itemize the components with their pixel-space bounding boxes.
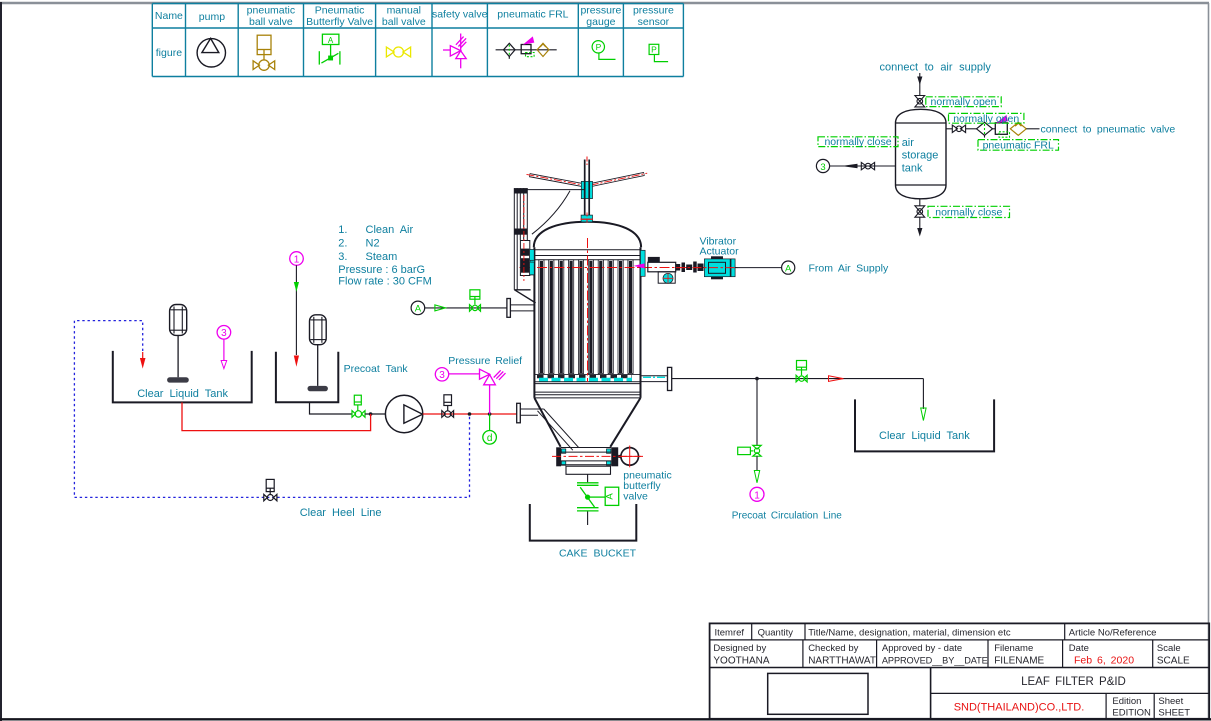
support brace diagonal bbox=[515, 290, 536, 303]
svg-text:Sheet: Sheet bbox=[1158, 696, 1183, 707]
flange: cone left nozzle bbox=[517, 403, 521, 423]
vibrator shaft right side bbox=[648, 257, 660, 262]
svg-text:storage: storage bbox=[902, 150, 939, 162]
pipe: vent down bbox=[919, 217, 921, 228]
svg-text:normally open: normally open bbox=[953, 113, 1019, 125]
svg-text:pneumatic FRL: pneumatic FRL bbox=[497, 9, 568, 21]
pipe: vibrator to air supply bbox=[676, 267, 737, 269]
svg-text:Edition: Edition bbox=[1112, 696, 1141, 707]
node: magenta circle 3 (relief) bbox=[435, 368, 448, 381]
vessel: bottom plate lines bbox=[535, 381, 640, 383]
vessel: cone bbox=[534, 398, 560, 447]
valve: air tank top manual valve bbox=[915, 96, 925, 107]
node: magenta circle 1 (precoat feed) bbox=[290, 252, 304, 266]
svg-text:Name: Name bbox=[155, 10, 183, 22]
tank: precoat tank bbox=[276, 352, 338, 403]
pipe: precoat circulation drop bbox=[756, 379, 758, 446]
flange: vessel air nozzle bbox=[507, 299, 511, 318]
node: magenta circle 3 (left tank) bbox=[217, 326, 231, 340]
page border left bbox=[0, 2, 2, 721]
pressure relief valve (magenta) bbox=[449, 369, 506, 414]
svg-text:ball valve: ball valve bbox=[249, 16, 293, 28]
pipe below butterfly valve bbox=[587, 512, 589, 526]
column bottom cap bbox=[514, 229, 527, 235]
svg-text:tank: tank bbox=[902, 162, 923, 174]
legend safety valve symbol bbox=[443, 34, 466, 69]
svg-text:2.: 2. bbox=[338, 237, 347, 249]
svg-text:Title/Name, designation, mater: Title/Name, designation, material, dimen… bbox=[808, 627, 1011, 638]
svg-text:Feb 6, 2020: Feb 6, 2020 bbox=[1074, 654, 1134, 666]
agitator 1 shaft bbox=[177, 335, 179, 377]
legend pressure sensor symbol bbox=[649, 44, 668, 61]
text: edition / sheet bbox=[1112, 696, 1190, 719]
svg-text:gauge: gauge bbox=[586, 16, 615, 28]
label box: normally open (top) bbox=[926, 97, 1001, 107]
svg-text:Checked by: Checked by bbox=[808, 643, 858, 654]
valve: air inlet pneumatic ball valve bbox=[470, 290, 481, 311]
discharge valve: right flange bbox=[611, 447, 618, 466]
handwheel bbox=[621, 448, 639, 466]
node: steam circle 3 bbox=[816, 159, 829, 172]
legend pump symbol bbox=[197, 38, 225, 67]
title block logo box bbox=[768, 673, 868, 714]
svg-text:1.: 1. bbox=[338, 224, 347, 236]
support line from column to shaft bbox=[527, 189, 584, 191]
svg-text:SCALE: SCALE bbox=[1157, 655, 1190, 666]
pipe: valve to pump suction bbox=[365, 413, 385, 415]
svg-text:normally open: normally open bbox=[931, 96, 997, 108]
svg-text:Clear Liquid Tank: Clear Liquid Tank bbox=[879, 430, 970, 442]
pipe: precoat tank outlet bbox=[310, 402, 353, 414]
svg-text:Clean Air: Clean Air bbox=[366, 224, 414, 236]
FRL: filter diamond bbox=[977, 122, 993, 135]
shaft: vertical drive shaft bbox=[584, 160, 586, 222]
legend pneumatic ball valve symbol bbox=[253, 35, 275, 70]
svg-text:figure: figure bbox=[156, 47, 182, 59]
svg-text:ball valve: ball valve bbox=[382, 16, 426, 28]
arrow: flow toward circle bbox=[841, 164, 857, 168]
node: junction on clear liquid line bbox=[755, 377, 759, 381]
flange: right outlet bbox=[668, 367, 672, 390]
svg-text:LEAF FILTER P&ID: LEAF FILTER P&ID bbox=[1021, 676, 1126, 688]
vibrator actuator body bbox=[704, 259, 735, 277]
svg-text:sensor: sensor bbox=[638, 16, 670, 28]
svg-text:d: d bbox=[487, 433, 493, 444]
column lower block assembly bbox=[520, 241, 529, 276]
svg-text:Itemref: Itemref bbox=[715, 627, 745, 638]
arrow: to precoat line (green) bbox=[754, 471, 759, 483]
legend pneumatic FRL symbol bbox=[496, 36, 557, 58]
svg-text:pressure: pressure bbox=[633, 5, 674, 17]
valve: discharge manual valve (black) bbox=[442, 395, 454, 418]
node: junction relief bbox=[488, 412, 492, 416]
svg-text:FILENAME: FILENAME bbox=[994, 655, 1044, 666]
cyan dash-dot line to right nozzle bbox=[643, 376, 667, 378]
svg-text:3.: 3. bbox=[338, 251, 347, 263]
node: circle A (from air supply) bbox=[782, 261, 795, 274]
arrow: air inlet flow bbox=[435, 305, 446, 311]
arrow: red arrow into precoat tank bbox=[294, 356, 299, 367]
arrow: vent down bbox=[917, 228, 922, 237]
text: air storage tank bbox=[902, 137, 939, 175]
page border bottom bbox=[0, 718, 1211, 720]
svg-text:SND(THAILAND)CO.,LTD.: SND(THAILAND)CO.,LTD. bbox=[954, 701, 1085, 713]
svg-text:A: A bbox=[785, 263, 792, 274]
vessel: red vertical centerline bbox=[587, 238, 589, 382]
title block row1 text bbox=[715, 627, 1157, 638]
svg-text:APPROVED__BY__DATE: APPROVED__BY__DATE bbox=[882, 655, 988, 665]
svg-text:A: A bbox=[328, 36, 334, 45]
valve: precoat outlet pneumatic valve bbox=[352, 395, 365, 417]
vessel: red horizontal centerline bbox=[520, 267, 738, 269]
svg-text:Date: Date bbox=[1069, 643, 1089, 654]
svg-text:1: 1 bbox=[754, 490, 760, 501]
arrow: into right tank (green) bbox=[921, 408, 926, 421]
label box: normally close (left) bbox=[818, 137, 898, 147]
svg-text:Pressure : 6 barG: Pressure : 6 barG bbox=[338, 264, 425, 276]
svg-text:normally close: normally close bbox=[824, 136, 891, 148]
node: junction suction bbox=[369, 412, 373, 416]
discharge valve body bbox=[561, 448, 611, 465]
arrow: magenta down bbox=[221, 361, 227, 369]
svg-text:Article No/Reference: Article No/Reference bbox=[1069, 627, 1157, 638]
agitator 1 impeller bbox=[167, 377, 189, 382]
svg-text:N2: N2 bbox=[366, 237, 380, 249]
agitator 2 shaft bbox=[317, 345, 319, 386]
node: magenta circle 1 (precoat circulation) bbox=[750, 487, 764, 501]
node: junction heel line bbox=[468, 412, 472, 416]
svg-text:pressure: pressure bbox=[580, 5, 621, 17]
valve: heel line valve bbox=[264, 479, 277, 500]
pipe: pump discharge (red) bbox=[423, 413, 517, 415]
discharge valve: left flange bbox=[556, 447, 561, 466]
pipe: air supply down line bbox=[919, 73, 921, 96]
agitator shaft above dome bbox=[586, 157, 588, 167]
FRL: regulator box bbox=[995, 123, 1007, 135]
cake bucket bbox=[530, 504, 637, 541]
FRL: lubricator diamond bbox=[1010, 122, 1026, 135]
svg-text:P: P bbox=[596, 42, 602, 52]
pipe: precoat feed line bbox=[295, 265, 297, 355]
vessel: internal dip pipe bbox=[538, 411, 573, 450]
arrow: air supply flow down bbox=[917, 77, 922, 86]
vessel: left manifold cyan cap bbox=[530, 250, 535, 275]
svg-text:Quantity: Quantity bbox=[758, 627, 794, 638]
legend table grid bbox=[152, 4, 683, 77]
shaft lower coupling (cyan) bbox=[581, 215, 592, 222]
svg-text:Actuator: Actuator bbox=[700, 245, 740, 257]
svg-text:safety valve: safety valve bbox=[432, 9, 488, 21]
svg-text:Scale: Scale bbox=[1157, 643, 1181, 654]
svg-text:connect to pneumatic valve: connect to pneumatic valve bbox=[1041, 124, 1176, 136]
svg-text:Pneumatic: Pneumatic bbox=[315, 5, 365, 17]
svg-text:Precoat Circulation Line: Precoat Circulation Line bbox=[732, 510, 843, 521]
shaft collar (cyan) bbox=[581, 181, 592, 198]
vessel: upper manifold lines bbox=[535, 249, 640, 251]
vibrator bracket with motor bbox=[658, 272, 675, 283]
svg-text:Clear Liquid Tank: Clear Liquid Tank bbox=[137, 388, 228, 400]
agitator 2 impeller bbox=[308, 386, 328, 391]
legend manual ball valve symbol bbox=[386, 47, 410, 57]
pipe: tank bottom bbox=[919, 199, 921, 206]
svg-text:3: 3 bbox=[820, 162, 825, 173]
tank: clear liquid tank (left) bbox=[113, 351, 252, 403]
svg-text:pneumatic FRL: pneumatic FRL bbox=[983, 140, 1054, 152]
arrow: clear liquid flow (red) bbox=[829, 376, 844, 382]
vessel: filter leaves group bbox=[539, 260, 633, 374]
svg-text:P: P bbox=[651, 45, 657, 55]
pipe: tank outlet right bbox=[946, 128, 952, 130]
pipe: to pneumatic valve bbox=[1026, 128, 1039, 130]
label box: normally open (middle) bbox=[949, 113, 1024, 123]
arrow: green mid arrow bbox=[294, 282, 299, 292]
svg-text:3: 3 bbox=[439, 370, 445, 381]
svg-text:pump: pump bbox=[199, 11, 225, 23]
discharge spool box bbox=[566, 466, 611, 474]
couplings bbox=[676, 264, 681, 271]
page border top bbox=[0, 2, 1209, 4]
pipe: drop into right tank bbox=[922, 379, 924, 409]
svg-text:SHEET: SHEET bbox=[1158, 707, 1190, 718]
vessel: right manifold cyan cap bbox=[640, 250, 645, 276]
svg-text:air: air bbox=[902, 137, 915, 149]
svg-text:normally close: normally close bbox=[935, 207, 1002, 219]
pipe: to butterfly valve bbox=[587, 474, 589, 482]
spreader arm right bbox=[591, 173, 648, 185]
column red centerline bbox=[523, 195, 525, 281]
title block grid bbox=[710, 623, 1210, 718]
pipe: left tank red drop and run bbox=[182, 402, 371, 430]
node: circle A (air inlet) bbox=[411, 301, 425, 315]
arrow: heel return into tank (red) bbox=[142, 352, 144, 359]
instrument: drain gauge (green) bbox=[489, 414, 491, 431]
title block row2 values bbox=[713, 655, 1190, 666]
cable curve bbox=[532, 191, 570, 235]
svg-text:A: A bbox=[415, 304, 422, 315]
agitator 1 motor bbox=[170, 305, 187, 336]
agitator 2 motor bbox=[310, 315, 327, 345]
svg-text:Designed by: Designed by bbox=[713, 643, 766, 654]
legend header labels bbox=[155, 5, 674, 60]
pipe: vessel right outlet nozzle bbox=[641, 375, 668, 377]
svg-text:Filename: Filename bbox=[994, 643, 1033, 654]
air storage tank bbox=[896, 109, 947, 199]
svg-text:pneumatic: pneumatic bbox=[247, 5, 295, 17]
heel line (blue dashed) bbox=[74, 321, 469, 498]
valve: tank left inlet valve bbox=[861, 162, 874, 169]
label box: normally close (bottom) bbox=[928, 206, 1010, 217]
svg-text:Clear Heel Line: Clear Heel Line bbox=[300, 507, 382, 519]
svg-text:3: 3 bbox=[221, 328, 227, 339]
discharge valve red centerline bbox=[552, 455, 643, 457]
lift column (left of vessel) bbox=[514, 188, 527, 290]
notes text block bbox=[338, 224, 432, 287]
spreader arm left bbox=[527, 174, 584, 185]
svg-text:Pressure Relief: Pressure Relief bbox=[448, 355, 522, 367]
valve: tank outlet valve bbox=[952, 125, 965, 132]
svg-text:Flow rate : 30 CFM: Flow rate : 30 CFM bbox=[338, 275, 432, 287]
legend pneumatic butterfly valve symbol bbox=[319, 34, 340, 64]
magenta flow mark bbox=[634, 263, 645, 268]
column base plate bbox=[514, 289, 530, 291]
handwheel stem bbox=[618, 455, 621, 458]
pipe: clear liquid line bbox=[672, 378, 924, 380]
svg-text:Butterfly Valve: Butterfly Valve bbox=[306, 16, 373, 28]
svg-text:Approved by - date: Approved by - date bbox=[882, 643, 962, 654]
legend pressure gauge symbol bbox=[592, 41, 615, 60]
pipe: steam to tank bbox=[830, 165, 896, 167]
svg-text:A: A bbox=[604, 493, 615, 500]
tank: clear liquid tank (right) bbox=[855, 399, 994, 451]
vessel: shell walls bbox=[533, 247, 535, 398]
svg-text:From Air Supply: From Air Supply bbox=[809, 263, 889, 275]
pump bbox=[385, 395, 422, 432]
column top cap bbox=[514, 188, 527, 193]
vessel: dome head bbox=[534, 222, 641, 248]
pipe: air inlet to vessel bbox=[425, 307, 507, 309]
valve: pneumatic butterfly valve (green) bbox=[577, 483, 619, 511]
svg-text:Steam: Steam bbox=[366, 251, 398, 263]
label box: pneumatic FRL bbox=[978, 140, 1059, 151]
text: pneumatic butterfly valve bbox=[623, 470, 671, 503]
pipe: steam into left tank (magenta) bbox=[223, 339, 225, 361]
svg-text:YOOTHANA: YOOTHANA bbox=[713, 655, 769, 666]
svg-text:Precoat Tank: Precoat Tank bbox=[344, 363, 409, 375]
title block row2 labels bbox=[713, 643, 1180, 654]
svg-text:NARTTHAWAT: NARTTHAWAT bbox=[808, 655, 876, 666]
valve: clear liquid pneumatic ball valve bbox=[796, 361, 807, 382]
svg-text:CAKE BUCKET: CAKE BUCKET bbox=[559, 547, 637, 559]
svg-text:1: 1 bbox=[294, 254, 300, 265]
svg-text:valve: valve bbox=[623, 490, 648, 502]
svg-text:EDITION: EDITION bbox=[1112, 707, 1151, 718]
page border right bbox=[1208, 3, 1210, 719]
svg-text:connect to air supply: connect to air supply bbox=[880, 62, 992, 74]
svg-text:manual: manual bbox=[387, 5, 421, 17]
valve: air tank bottom valve bbox=[915, 206, 925, 217]
valve: precoat circulation valve (side actuator) bbox=[738, 445, 762, 456]
vessel: leaf support cyan dashed band bbox=[537, 375, 632, 379]
